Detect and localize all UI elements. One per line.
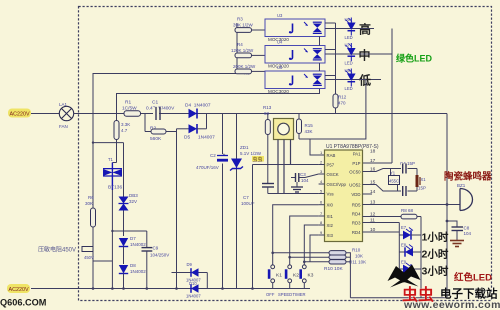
svg-text:4.7: 4.7 (121, 128, 128, 133)
pin 16 stub (363, 171, 369, 173)
watermark bug logo wings (388, 265, 421, 283)
pin 14 stub (363, 193, 373, 195)
pin names left (327, 153, 347, 238)
wire pin8 to K3 column (304, 225, 318, 265)
pin 5 stub (319, 193, 325, 195)
wire opto cascade links (319, 37, 321, 46)
svg-text:470: 470 (338, 101, 346, 106)
svg-text:470UF/16V: 470UF/16V (196, 165, 219, 170)
svg-text:5.1V 1/2W: 5.1V 1/2W (240, 151, 262, 156)
svg-text:104: 104 (464, 231, 472, 236)
wire row to LED high (325, 28, 365, 30)
wire pin6 to K1 column (273, 205, 319, 265)
svg-text:LED: LED (345, 86, 353, 91)
switch K1 (271, 265, 275, 269)
junction dot buzzer column (446, 203, 449, 206)
svg-text:LED: LED (345, 35, 353, 40)
pin 9 stub (319, 234, 325, 236)
resistor R9 10K (329, 251, 346, 255)
svg-text:陶瓷蜂鸣器: 陶瓷蜂鸣器 (444, 171, 492, 183)
svg-text:P1P: P1P (352, 161, 360, 166)
junction dots bottom rail (92, 287, 95, 290)
svg-text:43K: 43K (305, 129, 313, 134)
wire diagonal C3 to pin3 (299, 177, 305, 179)
svg-text:P57: P57 (327, 163, 335, 168)
capacitor C2 470UF/16V electrolytic (216, 154, 229, 164)
svg-text:30K: 30K (85, 201, 93, 206)
svg-text:450V: 450V (84, 255, 94, 260)
wire left column x=93 down from rail (92, 114, 94, 289)
wire C2 column (222, 114, 224, 289)
node AC220V neutral input (7, 284, 30, 293)
svg-text:1N4007: 1N4007 (198, 135, 215, 141)
capacitor C5 15P (401, 187, 408, 196)
svg-text:RD4: RD4 (352, 212, 361, 217)
svg-text:www.eeworm.com: www.eeworm.com (403, 299, 500, 310)
svg-text:虫虫: 虫虫 (253, 156, 263, 163)
svg-text:XI0: XI0 (327, 203, 334, 208)
svg-text:1N4002: 1N4002 (130, 242, 146, 247)
svg-text:1N4002: 1N4002 (130, 269, 146, 274)
svg-text:E8: E8 (401, 243, 407, 248)
wire pin16 to resonator top rail (369, 169, 418, 172)
svg-text:17: 17 (370, 158, 376, 164)
svg-text:BT136: BT136 (108, 185, 122, 191)
svg-text:XI2: XI2 (327, 223, 334, 228)
ground under C3 (296, 182, 298, 187)
pin 7 stub (319, 215, 325, 217)
pin 2 stub (319, 164, 325, 166)
node AC220V live input (8, 109, 31, 118)
wire LED return bottom (350, 297, 447, 299)
optocoupler U3 MOC3020 (265, 13, 325, 42)
wire rows to resistor network (273, 252, 329, 254)
pin 4 stub (319, 183, 325, 185)
pin numbers left (320, 150, 323, 235)
svg-text:X1: X1 (421, 177, 427, 182)
svg-text:R12: R12 (338, 95, 347, 100)
wire from AC220V to lamp (31, 113, 59, 115)
optocoupler U5 MOC3020 (265, 65, 325, 94)
resistor R11 10K (329, 260, 346, 264)
wire pin9 column (310, 235, 319, 262)
wire R15 bottom joins LED low net (299, 138, 310, 140)
svg-text:R10 10K: R10 10K (324, 266, 343, 272)
pin 6 stub (319, 204, 325, 206)
watermark yellow chip label (252, 156, 264, 162)
resistor R10 10K (329, 255, 346, 259)
svg-text:PA1: PA1 (353, 152, 361, 157)
svg-text:D8: D8 (130, 263, 136, 268)
svg-text:14: 14 (370, 189, 376, 195)
svg-text:红色LED: 红色LED (454, 272, 492, 284)
pin 11 stub (363, 222, 369, 224)
svg-text:D5: D5 (184, 135, 190, 141)
wire triac MT1 down to bottom (111, 190, 113, 289)
wire main L2 rail from lamp to right column (74, 113, 447, 115)
svg-text:中: 中 (359, 48, 371, 63)
svg-text:R13: R13 (263, 105, 272, 110)
svg-text:SPEED: SPEED (278, 292, 292, 297)
svg-text:104: 104 (301, 178, 309, 183)
svg-text:560K: 560K (150, 136, 162, 142)
svg-text:R15: R15 (305, 123, 314, 128)
svg-text:200K 1/2W: 200K 1/2W (233, 64, 256, 69)
op-amp U1 microcontroller PT8A978BP (319, 144, 379, 242)
wire varistor link (93, 260, 112, 262)
wire network common down (346, 253, 350, 298)
wire triac bottom jog to C9 column (112, 230, 146, 232)
wire low LED down to pin1 (310, 80, 366, 156)
wire Vss column to switch area (252, 165, 254, 289)
wire opto output bus (335, 23, 337, 94)
wire ground rail pin5 (268, 193, 319, 195)
svg-text:RD3: RD3 (352, 221, 361, 226)
wire pin12 to R8 (369, 216, 402, 218)
ground under C8 (456, 231, 458, 241)
svg-text:LED: LED (345, 61, 353, 66)
pin 12 stub (363, 216, 369, 218)
svg-text:2小时: 2小时 (422, 248, 449, 261)
wire pin15 to resonator bottom rail (369, 185, 418, 192)
svg-text:Q606.COM: Q606.COM (0, 298, 47, 308)
svg-text:UO52: UO52 (349, 183, 361, 188)
svg-text:C3: C3 (300, 172, 306, 177)
wire D9 right column (206, 273, 208, 289)
svg-text:RAB: RAB (327, 153, 336, 158)
svg-text:120K 1/2W: 120K 1/2W (231, 48, 254, 53)
wire LED right column x=421 (420, 217, 422, 298)
svg-text:K3: K3 (308, 273, 314, 279)
wire top feed from x=90.5 up to resistor bus (93, 74, 237, 114)
svg-text:R6: R6 (88, 195, 94, 200)
wire L1 upper rail (117, 88, 320, 114)
wire neutral return column x=176.5 (176, 129, 178, 289)
svg-text:U5: U5 (277, 65, 283, 70)
svg-text:104/250V: 104/250V (150, 253, 169, 258)
svg-text:DB3: DB3 (129, 193, 138, 198)
svg-text:T1: T1 (108, 157, 114, 162)
svg-text:3.3K: 3.3K (121, 122, 130, 127)
svg-text:1小时: 1小时 (422, 231, 449, 244)
wire row to LED mid (325, 53, 391, 55)
wire pin11 to LED left column (369, 222, 400, 224)
svg-text:U4: U4 (277, 40, 283, 45)
svg-text:K1: K1 (276, 273, 282, 279)
diode D8 1N4002 (119, 263, 146, 289)
triac T1 BT136 (103, 157, 122, 191)
diode D7 1N4002 (119, 236, 146, 264)
svg-text:R4: R4 (237, 42, 243, 47)
svg-text:R3: R3 (237, 17, 243, 22)
optocoupler U4 MOC3020 (265, 40, 325, 69)
wire pin10 (369, 231, 400, 233)
svg-text:U3: U3 (277, 13, 283, 18)
pin 13 stub (363, 204, 369, 206)
svg-text:D7: D7 (130, 236, 136, 241)
svg-text:OSCI/Vpp: OSCI/Vpp (327, 182, 347, 187)
wire resistor bus x=237 (236, 23, 238, 74)
diac DB3 (119, 143, 139, 236)
crystal X1 ceramic resonator (416, 169, 418, 176)
svg-text:RD5: RD5 (352, 203, 361, 208)
pin 10 stub (363, 231, 369, 233)
wire right column x=447 down (446, 114, 448, 298)
svg-text:C7: C7 (243, 195, 249, 200)
svg-text:32V: 32V (129, 199, 137, 204)
svg-text:D9: D9 (187, 262, 193, 267)
wire D5 join up to main rail (206, 114, 208, 129)
svg-text:OFF: OFF (266, 292, 275, 297)
svg-text:455C: 455C (389, 179, 399, 184)
svg-text:D4 1N4007: D4 1N4007 (185, 103, 211, 109)
wire gate feed jog (93, 142, 124, 144)
svg-text:FAN: FAN (59, 124, 68, 129)
pin numbers right (370, 149, 376, 234)
svg-text:XI1: XI1 (327, 214, 334, 219)
resistor R15 43K (298, 114, 300, 120)
svg-text:MOC3020: MOC3020 (268, 89, 289, 94)
svg-text:压敏电阻450V: 压敏电阻450V (38, 246, 76, 254)
svg-text:3小时: 3小时 (422, 265, 449, 278)
switch K2 (288, 265, 292, 269)
svg-text:绿色LED: 绿色LED (396, 53, 433, 64)
capacitor C3 104 (291, 177, 296, 179)
svg-text:R8 68: R8 68 (401, 208, 414, 213)
pin 15 stub (363, 184, 369, 186)
wire common LED vertical x=392 to pin17 (391, 29, 393, 164)
svg-text:10K: 10K (355, 254, 363, 259)
svg-text:BZ1: BZ1 (457, 183, 466, 188)
svg-text:AC220V: AC220V (9, 287, 29, 293)
resistor R2 560K bypass (145, 131, 177, 133)
resistor R12 470 on bus (333, 94, 338, 108)
svg-text:C9: C9 (153, 246, 159, 251)
svg-text:VDD: VDD (351, 192, 360, 197)
svg-text:K2: K2 (293, 273, 299, 279)
svg-text:15P: 15P (418, 186, 426, 191)
svg-text:AC220V: AC220V (10, 111, 30, 117)
svg-text:C8: C8 (464, 226, 470, 231)
svg-text:ZD1: ZD1 (240, 145, 249, 150)
svg-text:E9: E9 (401, 260, 407, 265)
wire bottom AC rail (31, 288, 310, 290)
regulator legs (277, 140, 279, 194)
svg-text:R10: R10 (352, 248, 361, 253)
capacitor C9 104/250V (146, 231, 148, 247)
pin 8 stub (319, 224, 325, 226)
wire mid LED to common vertical (356, 53, 392, 55)
svg-text:C2: C2 (210, 153, 216, 158)
svg-text:18: 18 (370, 149, 376, 155)
wire pin13 to buzzer (369, 204, 461, 206)
svg-text:1N4007: 1N4007 (186, 294, 201, 299)
dashed enclosure border (79, 7, 492, 301)
svg-text:R1: R1 (125, 100, 131, 106)
wire high LED to common vertical (356, 28, 374, 30)
wire pin7 to K2 column (290, 216, 319, 265)
pin 3 stub (319, 173, 325, 175)
pin names right (349, 152, 361, 236)
wire 5V rail y=164 (253, 164, 291, 166)
svg-text:RD4: RD4 (352, 230, 361, 235)
svg-text:OSCK: OSCK (327, 172, 339, 177)
svg-text:39K 1/2W: 39K 1/2W (233, 23, 254, 28)
svg-text:68: 68 (264, 111, 270, 116)
svg-text:R11 10K: R11 10K (349, 260, 366, 265)
resistor R16 3.3K vertical (116, 114, 118, 121)
switch K3 (302, 265, 306, 269)
svg-text:OC50: OC50 (349, 170, 361, 175)
svg-text:C1: C1 (152, 100, 158, 106)
svg-text:XI3: XI3 (327, 233, 334, 238)
svg-text:Vss: Vss (327, 192, 334, 197)
wire row to LED low (325, 79, 381, 81)
svg-text:TIMER: TIMER (293, 292, 306, 297)
regulator U2 78L05 (top view) (274, 119, 294, 140)
wire Vss to pin2 (291, 164, 319, 166)
capacitor C8 104 (447, 221, 457, 227)
